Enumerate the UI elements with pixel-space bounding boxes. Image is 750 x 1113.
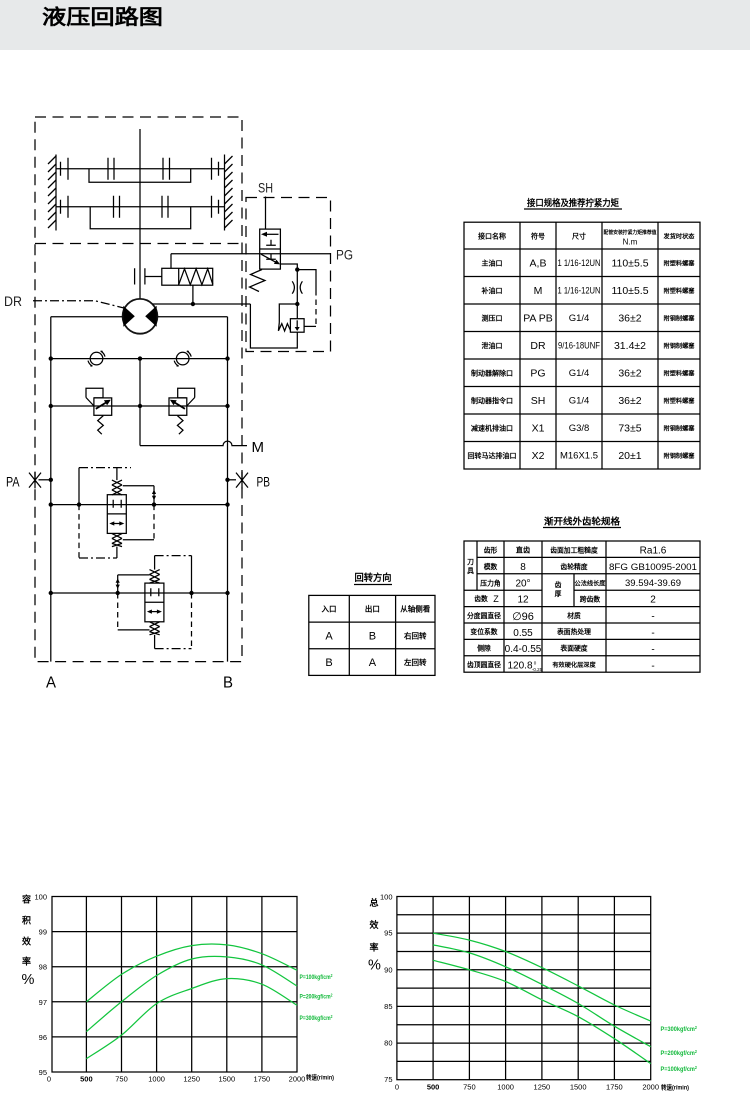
CB1 pilot loop bottom	[79, 557, 117, 559]
gearbox left wall (fixed housing, hatched)	[48, 155, 56, 231]
shuttle relief valve U3	[290, 319, 304, 333]
orifice (restrictor)	[292, 281, 302, 293]
svg-text:率: 率	[22, 956, 31, 967]
svg-text:主油口: 主油口	[482, 259, 503, 268]
wire SH to pilot valve	[265, 197, 267, 230]
DR drain dash-dot wire	[33, 301, 126, 309]
CB1 bottom stub	[116, 547, 118, 558]
svg-text:厚: 厚	[555, 589, 562, 598]
brake release cylinder with spring	[162, 268, 213, 285]
CB2 pilot loop dash-dot top	[155, 555, 192, 557]
svg-text:P=300kgf/cm2: P=300kgf/cm2	[661, 1025, 698, 1033]
svg-text:PA PB: PA PB	[523, 313, 553, 325]
svg-text:B: B	[325, 657, 332, 669]
svg-text:95: 95	[384, 929, 392, 938]
right chart curve P=100	[433, 960, 651, 1063]
svg-text:0.55: 0.55	[513, 628, 533, 639]
svg-text:SH: SH	[531, 395, 546, 407]
relief valve RV1	[86, 388, 112, 434]
check valve CV1	[88, 351, 105, 366]
svg-text:0: 0	[47, 1075, 51, 1084]
gearbox right wall (fixed housing, hatched)	[225, 155, 233, 231]
svg-text:500: 500	[80, 1075, 93, 1084]
svg-text:G1/4: G1/4	[569, 313, 590, 324]
svg-text:1750: 1750	[606, 1083, 623, 1092]
svg-text:出口: 出口	[365, 604, 380, 614]
svg-text:P=200kgf/cm2: P=200kgf/cm2	[300, 993, 333, 1001]
gear carrier 2	[90, 207, 191, 229]
right chart: total efficiency	[368, 893, 697, 1092]
svg-text:12: 12	[517, 595, 529, 606]
reduction gearbox dashed enclosure	[35, 117, 242, 662]
svg-text:测压口: 测压口	[482, 314, 503, 323]
right chart curve P=300	[433, 933, 651, 1021]
input shaft (vertical)	[139, 129, 141, 299]
pilot operated brake valve U2	[260, 229, 281, 269]
wire branch right	[297, 270, 316, 290]
svg-text:B: B	[369, 631, 376, 643]
right chart y axis title	[368, 897, 381, 974]
make-up check line	[51, 358, 228, 360]
svg-text:97: 97	[39, 998, 47, 1007]
left chart curve P=200	[86, 956, 297, 1031]
svg-text:配管安装拧紧力矩推荐值: 配管安装拧紧力矩推荐值	[604, 228, 658, 236]
svg-text:液压回路图: 液压回路图	[42, 5, 163, 29]
title bar	[0, 0, 750, 50]
CB2 pilot right vertical	[191, 556, 193, 593]
svg-text:20±1: 20±1	[618, 450, 641, 462]
CB2 top spring	[150, 570, 160, 584]
svg-text:9/16-18UNF: 9/16-18UNF	[558, 341, 600, 351]
check valve CV2	[174, 351, 191, 366]
svg-text:SH: SH	[258, 181, 273, 196]
left chart grid	[52, 897, 297, 1073]
svg-text:有效硬化层深度: 有效硬化层深度	[552, 661, 596, 669]
CB2 bottom spring	[150, 622, 160, 635]
svg-text:99: 99	[39, 928, 47, 937]
svg-text:Z: Z	[493, 594, 499, 604]
junction dot	[295, 302, 299, 306]
right chart y labels	[380, 893, 393, 1085]
CB1 pilot loop dash-dot top	[79, 467, 131, 469]
svg-text:侧隙: 侧隙	[477, 644, 491, 653]
junction on drain line	[191, 302, 195, 306]
svg-text:36±2: 36±2	[618, 395, 641, 407]
svg-text:从轴侧看: 从轴侧看	[400, 604, 430, 614]
svg-text:36±2: 36±2	[618, 368, 641, 380]
port PB plug symbol	[225, 472, 248, 489]
svg-text:∅96: ∅96	[512, 611, 534, 623]
svg-text:1 1/16-12UN: 1 1/16-12UN	[558, 286, 601, 296]
svg-text:PB: PB	[257, 475, 271, 490]
right rail B-side	[227, 317, 229, 662]
svg-text:接口规格及推荐拧紧力矩: 接口规格及推荐拧紧力矩	[527, 197, 619, 208]
svg-text:0: 0	[395, 1083, 399, 1092]
svg-text:回转马达排油口: 回转马达排油口	[468, 451, 517, 460]
svg-text:转速(r/min): 转速(r/min)	[661, 1083, 689, 1092]
gear shaft row 2	[56, 196, 225, 218]
svg-text:效: 效	[22, 936, 32, 947]
gear carrier 1	[89, 169, 191, 182]
relief valve RV2	[169, 388, 195, 434]
svg-text:齿形: 齿形	[484, 546, 498, 555]
svg-text:A: A	[369, 657, 377, 669]
svg-text:750: 750	[115, 1075, 128, 1084]
junction dots check line	[49, 356, 230, 360]
svg-text:500: 500	[427, 1083, 440, 1092]
svg-text:P=100kgf/cm2: P=100kgf/cm2	[661, 1065, 698, 1073]
svg-text:A: A	[325, 631, 333, 643]
svg-text:PG: PG	[530, 368, 545, 380]
svg-text:-0.25: -0.25	[532, 667, 543, 672]
svg-text:M16X1.5: M16X1.5	[560, 451, 598, 462]
relief cross line	[51, 405, 228, 407]
CB2 bottom stub	[154, 635, 156, 649]
svg-text:A: A	[46, 675, 57, 692]
svg-text:齿顶圆直径: 齿顶圆直径	[467, 660, 501, 669]
svg-text:80: 80	[384, 1039, 392, 1048]
right chart x labels	[395, 1083, 659, 1092]
svg-text:20°: 20°	[515, 579, 530, 590]
svg-text:跨齿数: 跨齿数	[580, 595, 601, 604]
SH pilot valve dashed enclosure	[246, 198, 331, 352]
svg-text:120.8: 120.8	[507, 661, 532, 672]
port PA plug symbol	[29, 472, 53, 489]
junction dots cb line 1	[49, 502, 230, 506]
left chart y axis title	[21, 894, 35, 989]
svg-text:总: 总	[369, 897, 378, 908]
svg-text:-: -	[651, 644, 654, 655]
svg-text:95: 95	[39, 1068, 47, 1077]
wire to relief right port	[304, 325, 316, 327]
CB1 bottom spring	[112, 534, 122, 547]
center vertical wire	[139, 359, 141, 446]
svg-text:入口: 入口	[321, 605, 337, 614]
svg-text:1250: 1250	[183, 1075, 200, 1084]
port specification table	[464, 197, 700, 469]
PG line	[171, 253, 331, 255]
svg-text:制动器指令口: 制动器指令口	[471, 396, 513, 405]
svg-text:直齿: 直齿	[516, 546, 530, 555]
CB1 pilot left dashed lower	[78, 505, 80, 558]
svg-text:1750: 1750	[254, 1075, 271, 1084]
dashed pilot wire right	[315, 290, 317, 326]
svg-text:1000: 1000	[148, 1075, 165, 1084]
svg-text:N.m: N.m	[623, 238, 638, 247]
svg-text:左回转: 左回转	[403, 657, 427, 667]
svg-text:M: M	[534, 285, 543, 297]
wire cylinder bottom to drain line	[192, 285, 194, 304]
svg-text:P=300kgf/cm2: P=300kgf/cm2	[300, 1014, 333, 1022]
CB1 right pilot wires	[123, 486, 156, 540]
svg-text:转速(r/min): 转速(r/min)	[306, 1073, 334, 1082]
svg-text:85: 85	[384, 1002, 392, 1011]
motor port lines	[51, 316, 228, 318]
M port wire with hop	[140, 441, 247, 446]
svg-text:2: 2	[650, 595, 656, 606]
svg-text:31.4±2: 31.4±2	[614, 340, 646, 352]
svg-text:1000: 1000	[497, 1083, 514, 1092]
svg-text:齿: 齿	[555, 580, 562, 589]
svg-text:1500: 1500	[218, 1075, 235, 1084]
gear specification table	[464, 516, 700, 673]
brake discs on shaft	[135, 268, 145, 284]
svg-text:100: 100	[380, 893, 393, 902]
brake valve spring	[250, 270, 266, 292]
svg-text:1500: 1500	[570, 1083, 587, 1092]
svg-text:效: 效	[369, 919, 379, 930]
svg-text:齿面加工粗糙度: 齿面加工粗糙度	[550, 546, 598, 555]
svg-text:率: 率	[369, 942, 378, 953]
svg-text:90: 90	[384, 965, 392, 974]
svg-text:表面硬度: 表面硬度	[559, 644, 587, 653]
svg-text:DR: DR	[530, 340, 546, 352]
svg-text:0.4-0.55: 0.4-0.55	[505, 644, 542, 655]
left chart curve P=100	[86, 944, 297, 1002]
svg-text:附塑料螺塞: 附塑料螺塞	[664, 260, 696, 268]
svg-text:Ra1.6: Ra1.6	[640, 546, 667, 557]
left chart curve labels	[300, 973, 333, 1022]
svg-text:分度圆直径: 分度圆直径	[467, 611, 501, 620]
svg-text:100: 100	[34, 893, 47, 902]
wire valve out to orifice branch	[280, 264, 297, 319]
CB2 pilot right dashed lower	[191, 593, 193, 649]
svg-text:B: B	[223, 675, 233, 692]
svg-text:PG: PG	[336, 248, 353, 263]
svg-text:DR: DR	[4, 294, 22, 309]
counterbalance valve CB1 body	[107, 495, 126, 534]
counterbalance main line 2	[51, 592, 228, 594]
svg-text:容: 容	[21, 894, 31, 905]
svg-text:8: 8	[520, 562, 526, 573]
wire cylinder top to PG line	[170, 254, 172, 269]
junction dots cb line 2	[49, 591, 230, 595]
svg-text:减速机排油口: 减速机排油口	[471, 424, 513, 433]
CB1 top spring	[112, 480, 122, 495]
CB1 top pilot stub	[116, 468, 118, 481]
gear shaft row 1	[56, 158, 225, 180]
svg-text:2000: 2000	[642, 1083, 659, 1092]
left chart curve P=300	[86, 978, 297, 1058]
svg-text:%: %	[368, 958, 381, 974]
junction dots relief line	[49, 404, 230, 408]
svg-text:P=200kgf/cm2: P=200kgf/cm2	[661, 1049, 698, 1057]
right chart curve P=200	[433, 945, 651, 1047]
svg-text:G1/4: G1/4	[569, 396, 590, 407]
left rail A-side	[50, 317, 52, 662]
svg-text:1250: 1250	[534, 1083, 551, 1092]
svg-text:公法线长度: 公法线长度	[575, 579, 607, 587]
svg-text:制动器解除口: 制动器解除口	[471, 369, 513, 378]
svg-text:附塑料螺塞: 附塑料螺塞	[664, 370, 696, 378]
CB1 pilot left vertical	[78, 468, 80, 505]
svg-text:刀: 刀	[467, 558, 474, 566]
wire left branch to relief spring side	[279, 304, 297, 323]
svg-text:98: 98	[39, 963, 47, 972]
svg-text:PA: PA	[6, 475, 20, 490]
svg-text:2000: 2000	[289, 1075, 306, 1084]
svg-text:P=100kgf/cm2: P=100kgf/cm2	[300, 973, 333, 981]
right chart grid	[397, 897, 651, 1080]
svg-text:G1/4: G1/4	[569, 368, 590, 379]
svg-text:X2: X2	[532, 450, 545, 462]
svg-text:齿轮精度: 齿轮精度	[560, 562, 587, 571]
CB2 pilot loop bottom	[155, 648, 192, 650]
svg-text:-: -	[651, 628, 654, 639]
svg-text:73±5: 73±5	[618, 423, 641, 435]
CB2 top pilot stub	[154, 556, 156, 570]
svg-text:补油口: 补油口	[481, 286, 503, 295]
svg-text:回转方向: 回转方向	[355, 572, 392, 584]
right chart curve labels	[661, 1025, 698, 1073]
svg-text:附塑料螺塞: 附塑料螺塞	[664, 287, 696, 295]
svg-text:压力角: 压力角	[480, 578, 501, 587]
CB2 left pilot wires	[116, 575, 150, 630]
svg-text:附钢制螺塞: 附钢制螺塞	[664, 315, 696, 323]
svg-text:附钢制螺塞: 附钢制螺塞	[664, 342, 696, 350]
svg-text:附钢制螺塞: 附钢制螺塞	[664, 452, 696, 460]
svg-text:具: 具	[467, 566, 474, 575]
svg-text:110±5.5: 110±5.5	[611, 258, 648, 270]
svg-text:75: 75	[384, 1075, 392, 1084]
wire brake disc to cylinder	[145, 276, 162, 278]
counterbalance valve CB2 body	[145, 583, 164, 622]
svg-text:36±2: 36±2	[618, 313, 641, 325]
rotation direction table	[309, 572, 435, 675]
svg-text:发货时状态: 发货时状态	[663, 233, 696, 241]
svg-text:变位系数: 变位系数	[470, 627, 497, 636]
svg-text:接口名称: 接口名称	[478, 232, 506, 241]
svg-text:符号: 符号	[531, 232, 545, 241]
svg-text:表面热处理: 表面热处理	[556, 627, 591, 636]
svg-text:尺寸: 尺寸	[571, 232, 586, 241]
svg-text:39.594-39.69: 39.594-39.69	[625, 578, 681, 589]
wire relief bottom to drain	[250, 304, 297, 348]
relief valve spring W	[278, 323, 290, 332]
svg-text:X1: X1	[532, 423, 545, 435]
svg-text:渐开线外齿轮规格: 渐开线外齿轮规格	[544, 516, 621, 527]
svg-text:齿数: 齿数	[474, 594, 488, 603]
junction dot	[295, 267, 299, 271]
svg-text:-: -	[651, 661, 654, 672]
svg-text:M: M	[252, 439, 265, 456]
svg-text:模数: 模数	[484, 562, 498, 571]
svg-text:1 1/16-12UN: 1 1/16-12UN	[558, 258, 601, 268]
left chart y labels	[34, 893, 47, 1078]
hydraulic motor M1	[123, 299, 158, 334]
svg-text:右回转: 右回转	[403, 631, 427, 641]
svg-text:泄油口: 泄油口	[482, 341, 503, 350]
svg-text:96: 96	[39, 1033, 47, 1042]
svg-text:附钢制螺塞: 附钢制螺塞	[664, 425, 696, 433]
svg-text:-: -	[651, 612, 654, 623]
svg-text:G3/8: G3/8	[569, 423, 590, 434]
svg-text:积: 积	[22, 915, 31, 926]
svg-text:材质: 材质	[567, 611, 581, 620]
svg-text:750: 750	[463, 1083, 476, 1092]
motor drain wire	[153, 303, 251, 305]
counterbalance main line 1	[51, 504, 228, 506]
svg-text:110±5.5: 110±5.5	[611, 285, 648, 297]
svg-text:8FG GB10095-2001: 8FG GB10095-2001	[609, 562, 697, 572]
svg-text:A,B: A,B	[530, 258, 547, 270]
left chart: volumetric efficiency	[21, 893, 334, 1084]
svg-text:%: %	[22, 972, 35, 988]
left chart x labels	[47, 1075, 305, 1084]
svg-text:附塑料螺塞: 附塑料螺塞	[664, 397, 696, 405]
